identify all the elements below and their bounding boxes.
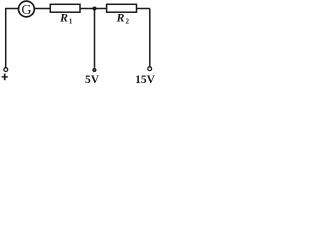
wire: right vertical down to 15V terminal [149, 9, 151, 67]
terminal circle 15V (right) [148, 67, 152, 71]
svg-text:1: 1 [69, 17, 73, 25]
wire: left vertical from top-left corner down to + terminal [5, 9, 7, 68]
svg-text:R: R [116, 11, 125, 25]
galvanometer G [19, 1, 35, 17]
terminal dot 5V (middle) [92, 68, 96, 72]
wire: junction to R2 [95, 8, 107, 10]
label + [2, 74, 8, 81]
resistor R1 [50, 4, 80, 12]
wire: R1 to junction [80, 8, 95, 10]
node junction dot [93, 7, 97, 11]
svg-text:R: R [59, 11, 68, 25]
wire: middle vertical from junction down to 5V terminal [94, 9, 96, 68]
svg-text:15V: 15V [135, 74, 156, 86]
svg-text:5V: 5V [85, 74, 100, 86]
terminal circle + (left) [4, 68, 8, 72]
resistor R2 [107, 4, 137, 12]
wire: galvanometer to R1 [34, 8, 50, 10]
svg-text:G: G [21, 3, 31, 18]
wire: R2 to top-right corner [137, 8, 150, 10]
svg-text:2: 2 [126, 17, 130, 25]
wire: top-left horizontal from corner to galvanometer [5, 8, 18, 10]
